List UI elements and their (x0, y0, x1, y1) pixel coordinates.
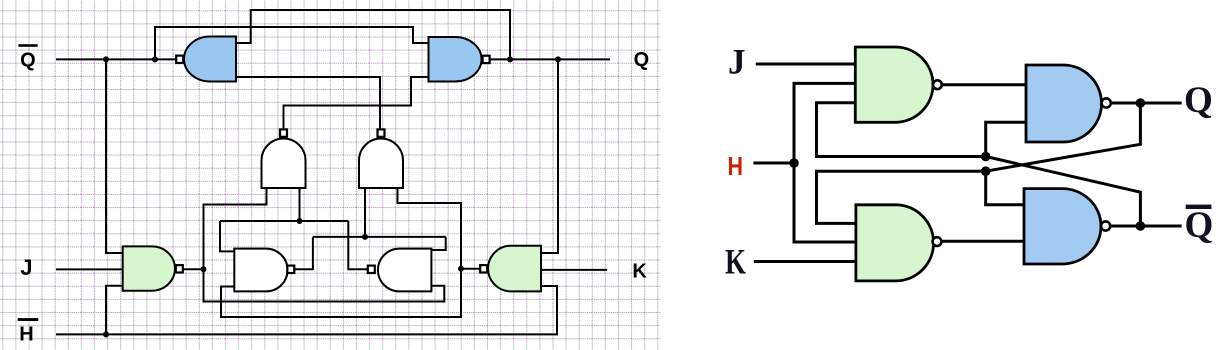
junction Q feedback node (981, 166, 991, 176)
NAND U1 (top-left blue, faces left) (176, 37, 236, 82)
wire H clock rail to both green gates (794, 83, 856, 242)
NAND G3 (right panel Q gate, blue) (1026, 65, 1111, 142)
wire latch node 2 horizontal (313, 236, 446, 238)
junction on Q-bar line at x155 (152, 56, 158, 62)
junction on Q line at x510 (507, 56, 513, 62)
wire G1 output to G3 top input (942, 83, 1026, 86)
wire U5 output up to latch node 2 (295, 237, 313, 269)
svg-text:H: H (19, 323, 33, 345)
wire Q output line (right panel) (1111, 102, 1182, 105)
NAND U8 (K input gate, green, faces left) (480, 246, 541, 292)
svg-text:Q: Q (634, 49, 650, 71)
wire K input line (right panel) (754, 260, 856, 263)
wire Q-bar node up to G3 bottom input (986, 122, 1026, 156)
wire Q output line (490, 58, 610, 60)
junction Q-bar output (1136, 221, 1146, 231)
wire U1 top input from Q feedback (over the top) (236, 10, 510, 59)
svg-text:Q: Q (1185, 205, 1214, 246)
NAND G4 (right panel Q-bar gate, blue) (1024, 189, 1110, 264)
svg-text:H: H (728, 151, 744, 181)
junction H clock node (789, 158, 799, 168)
wire K input line (541, 269, 607, 271)
junction on Q line at x558 (555, 56, 561, 62)
wire Q-bar output line (56, 58, 175, 60)
junction latch node (297, 218, 303, 224)
node H-bar (clock input label) (18, 318, 39, 345)
wire H clock line (753, 162, 794, 165)
svg-text:K: K (725, 242, 746, 282)
wire Q node down to G4 top input (986, 171, 1024, 205)
NAND G1 (right panel J gate, green) (855, 47, 942, 122)
junction U8 output node (458, 266, 464, 272)
svg-text:J: J (728, 42, 746, 82)
wire Q-bar feedback from node to G1 third input (817, 103, 986, 157)
wire U6 output up to latch node (348, 221, 367, 269)
junction Q-bar feedback node (981, 152, 991, 162)
NAND G2 (right panel K gate, green) (856, 205, 941, 281)
junction Q output (1136, 98, 1146, 108)
wire H-bar clock line across to K-gate bottom input (56, 286, 557, 334)
wire U4 left input down to latch node 2 (364, 188, 366, 237)
junction on Q-bar line at x106 (103, 56, 109, 62)
wire U3 left input loop to U6 bottom input (204, 188, 445, 302)
wire Q-bar down to J-gate top input (106, 59, 123, 253)
wire U7 output to vertical rail (184, 268, 204, 270)
wire U2 bottom input to U3 output bubble (284, 77, 429, 128)
wire latch node horizontal (220, 220, 348, 222)
junction latch node 2 (362, 234, 368, 240)
wire U1 bottom input to U4 output bubble (236, 77, 380, 128)
wire U8 output to vertical rail (461, 268, 479, 270)
NAND U2 (top-right blue, faces right) (429, 37, 490, 82)
wire Q down to K-gate top input (541, 59, 558, 253)
NAND U4 (middle-right, points up) (359, 129, 403, 188)
wire U7 bottom input down to H-bar line (106, 286, 123, 335)
NAND U5 (bottom latch left, faces right) (234, 249, 294, 292)
svg-text:J: J (20, 255, 32, 280)
wire G2 output to G4 bottom input (942, 240, 1024, 243)
wire J input line (right panel) (756, 63, 856, 66)
svg-text:K: K (632, 261, 647, 283)
wire U3 right input down to latch node (299, 188, 301, 221)
wire Q-bar output line (right panel) (1110, 225, 1181, 228)
wire Q node diagonal to Q output junction (986, 103, 1141, 171)
svg-text:Q: Q (20, 49, 36, 71)
NAND U3 (middle-left, points up) (262, 129, 306, 188)
node Q-bar (left panel inverted output label) (18, 44, 37, 71)
node Q-bar (right panel output label) (1185, 205, 1214, 246)
wire Q-bar feedback up and over to U2 top input (155, 27, 429, 59)
wire latch node down to U5 top input (220, 221, 234, 251)
wire latch node 2 down to U6 top input (431, 237, 445, 250)
junction U7 output node (201, 266, 207, 272)
wire Q-bar node diagonal to Q-bar output junction (986, 157, 1141, 227)
wire U4 right input loop to U5 bottom input (K-gate output net) (221, 188, 461, 317)
NAND U7 (J input gate, green, faces right) (123, 246, 183, 290)
wire Q feedback from node to G2 first input (817, 171, 986, 223)
svg-text:Q: Q (1184, 80, 1213, 121)
junction on H-bar line (103, 331, 109, 337)
NAND U6 (bottom latch right, faces left) (368, 249, 432, 292)
wire J input line (56, 268, 123, 270)
